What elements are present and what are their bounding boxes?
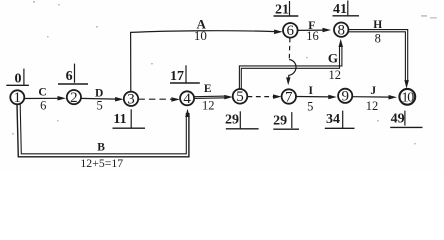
arrowhead H down into node 10 [404,80,409,89]
svg-text:9: 9 [341,89,349,105]
activity D arrow node2-node3 [81,97,117,100]
ET label 11 below node 3 [113,109,146,128]
hop curve over G line into node 7 [289,60,297,80]
svg-text:5: 5 [236,89,244,105]
node 10 [399,89,415,106]
activity I arrow node7-node9 [296,96,330,98]
ET label 6 above node 2 [58,64,88,84]
arrowhead A into node 6 [274,30,283,35]
svg-text:12: 12 [202,99,215,113]
ET label 0 above node 1 [6,69,29,87]
node 4 [180,91,194,107]
svg-text:2: 2 [70,90,78,106]
svg-text:1: 1 [14,90,22,106]
svg-text:10: 10 [194,28,207,43]
arrowhead J [389,95,398,100]
svg-text:I: I [308,85,313,97]
dummy dashed line node6 down [288,38,291,60]
svg-text:0: 0 [15,72,22,87]
activity J arrow node9-node10 [352,96,390,98]
activity H double line node8-node10 (critical) [348,30,408,82]
activity F arrow node6-node8 [298,29,325,31]
svg-text:6: 6 [40,99,46,113]
arrowhead I [328,95,337,100]
svg-text:12: 12 [366,99,379,113]
ET label 49 below node 10 [390,111,422,128]
svg-text:B: B [97,141,105,153]
svg-text:8: 8 [375,32,381,46]
arrowhead B up into node 4 [185,109,190,117]
svg-text:8: 8 [337,23,345,39]
svg-text:J: J [370,85,376,97]
svg-text:49: 49 [391,112,405,127]
arrowhead C [58,96,67,101]
arrowhead dummy 3-4 [171,97,180,102]
svg-text:6: 6 [287,23,295,39]
svg-text:10: 10 [401,91,414,106]
arrowhead E [224,95,233,100]
activity G double line node5-node8 (critical) [239,46,342,90]
ET label 17 above node 4 [170,65,200,84]
svg-text:41: 41 [333,2,347,17]
svg-text:G: G [328,51,338,66]
svg-text:12: 12 [329,68,342,82]
ET label 34 below node 9 [325,111,355,129]
svg-text:6: 6 [66,69,73,84]
svg-text:11: 11 [113,112,126,127]
node 5 [233,89,248,105]
activity B double line node1-node4 (critical) [17,104,189,157]
wire A vertical+horizontal from node 3 to node 6 [131,31,276,92]
svg-text:H: H [373,19,382,31]
node 1 [10,90,24,106]
svg-text:12+5=17: 12+5=17 [80,156,123,170]
ET label 41 above node 8 [333,1,360,18]
node 8 [334,23,348,39]
svg-text:3: 3 [127,92,135,108]
arrowhead dummy 6-7 into node 7 [286,77,290,85]
arrowhead G up into node 8 [339,39,344,47]
svg-text:17: 17 [170,69,184,84]
svg-text:E: E [204,83,212,95]
svg-text:C: C [38,86,46,98]
svg-text:D: D [95,87,103,99]
svg-text:29: 29 [273,113,287,128]
dummy dashed arrow node3-node4 [138,98,173,100]
ET label 21 above node 6 [274,1,299,18]
ET label 29 below node 5 [225,111,259,129]
node 2 [67,90,81,106]
svg-text:7: 7 [285,89,293,105]
svg-text:4: 4 [183,91,191,107]
node 6 [283,23,298,39]
node 9 [338,89,352,105]
ET label 29 below node 7 [273,112,299,129]
node 7 [282,89,296,105]
arrowhead dummy 5-7 [273,94,282,99]
scan speckles (decorative) [12,1,437,144]
arrowhead D [115,97,124,102]
node 3 [124,92,138,108]
activity C arrow node1-node2 [24,97,59,99]
arrowhead F [323,28,332,33]
svg-text:16: 16 [306,29,319,43]
dummy dashed arrow node5-node7 [248,96,275,98]
svg-text:34: 34 [326,112,340,127]
svg-text:5: 5 [307,99,313,113]
activity E double line node4-node5 (critical) [194,96,227,98]
svg-text:5: 5 [96,99,102,113]
svg-text:29: 29 [225,113,239,128]
svg-text:21: 21 [275,3,289,18]
